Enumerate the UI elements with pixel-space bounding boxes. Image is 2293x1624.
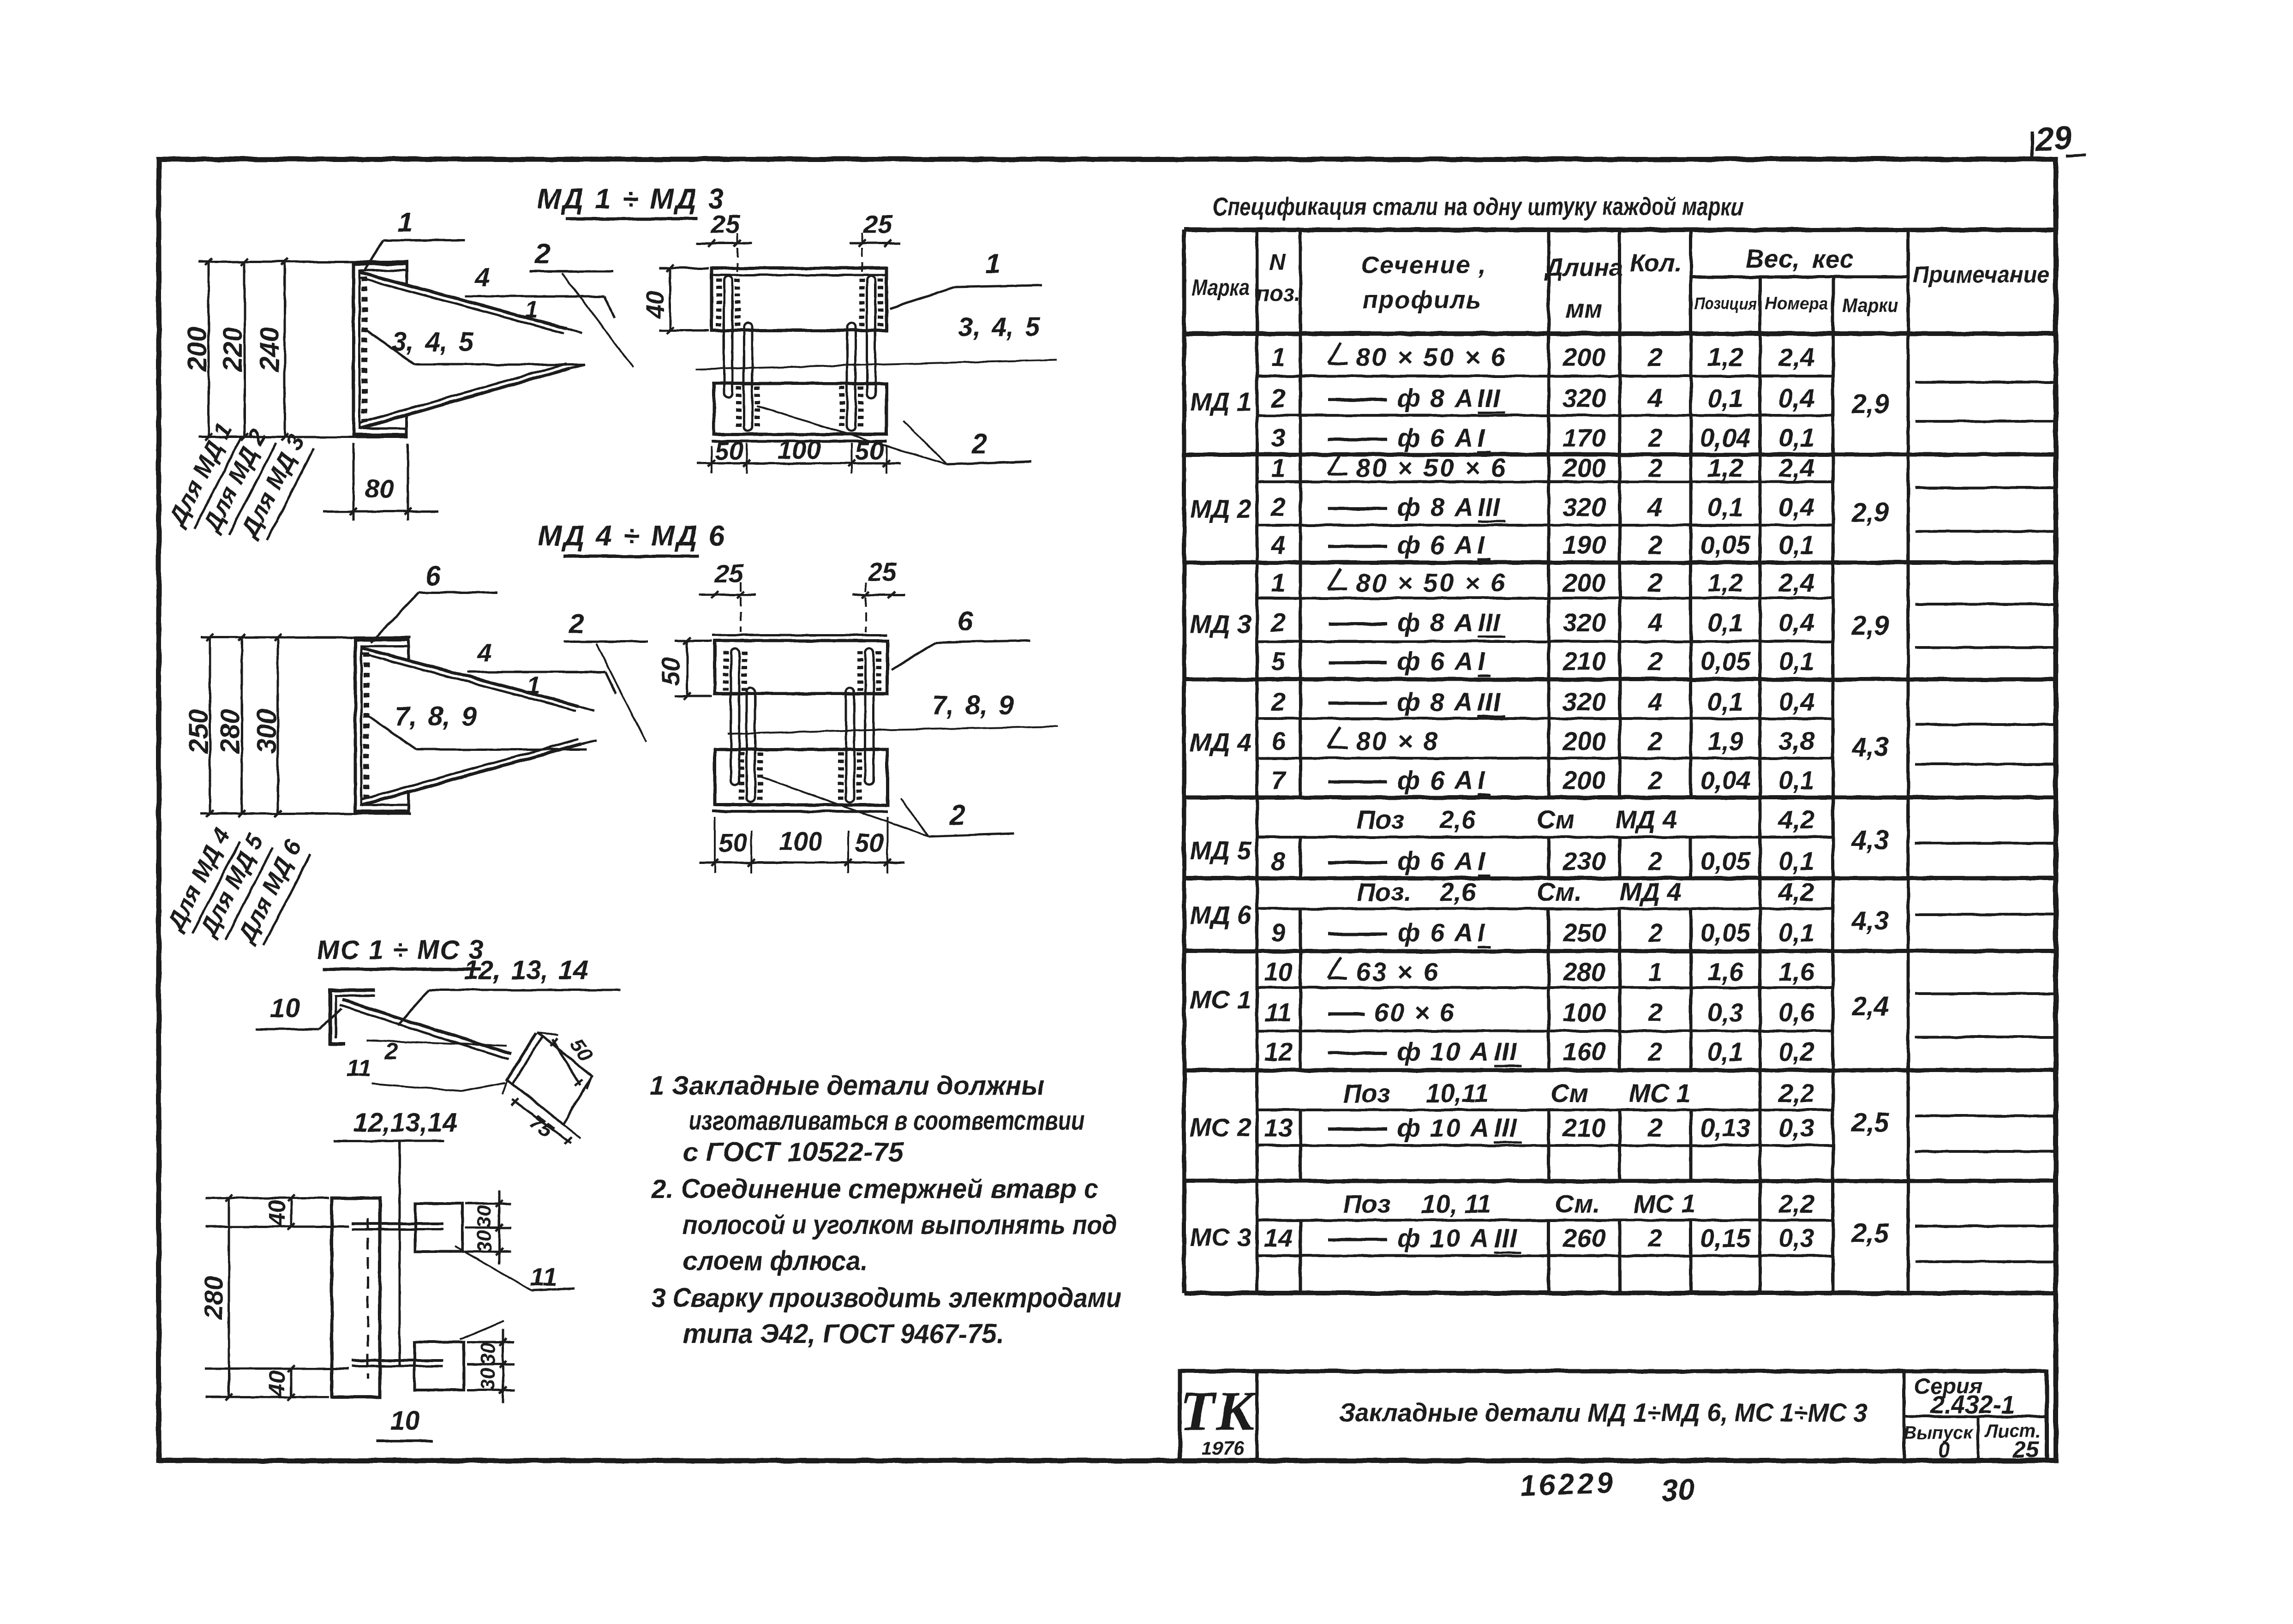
svg-text:100: 100 [779,827,822,856]
svg-text:7, 8, 9: 7, 8, 9 [932,690,1013,720]
svg-text:Спецификация стали на одну: Спецификация стали на одну штуку каждой … [1213,193,1743,221]
svg-text:4: 4 [1647,687,1662,716]
svg-text:Сечение ,: Сечение , [1361,251,1487,279]
svg-text:ф 10 А: ф 10 А [1397,1113,1490,1142]
svg-text:11: 11 [530,1262,557,1291]
svg-text:14: 14 [1264,1223,1293,1252]
svg-text:1: 1 [1648,957,1662,986]
svg-text:30: 30 [1660,1472,1695,1508]
svg-text:8: 8 [1271,846,1286,875]
svg-text:3, 4, 5: 3, 4, 5 [958,312,1040,342]
svg-text:ф 6 А: ф 6 А [1397,530,1474,559]
svg-text:170: 170 [1563,423,1605,452]
fig C bottom dims [697,462,901,465]
fig A weld [362,277,368,422]
fig E2 right dims bottom [467,1341,515,1343]
svg-text:ф 6 А: ф 6 А [1397,846,1474,875]
svg-text:I: I [1478,530,1485,559]
svg-text:1 Закладные детали должны: 1 Закладные детали должны [650,1071,1044,1101]
svg-text:320: 320 [1563,492,1605,521]
svg-text:30: 30 [473,1205,496,1228]
svg-text:1,2: 1,2 [1707,453,1743,482]
svg-text:0,05: 0,05 [1700,647,1751,676]
svg-text:4,3: 4,3 [1851,732,1889,762]
svg-text:0,3: 0,3 [1707,998,1743,1027]
svg-text:2: 2 [1647,726,1662,755]
fig D top plate [715,641,887,694]
svg-text:МД 1: МД 1 [1190,387,1251,416]
svg-text:МД 5: МД 5 [1190,836,1252,865]
fig B weld [364,653,370,798]
svg-text:МД 4: МД 4 [1615,805,1677,834]
svg-text:2,5: 2,5 [1851,1218,1889,1248]
svg-text:40: 40 [641,291,669,319]
svg-text:2: 2 [1270,492,1285,521]
svg-text:III: III [1494,1113,1517,1142]
svg-text:0,2: 0,2 [1778,1037,1814,1066]
svg-text:III: III [1478,608,1501,637]
svg-text:25: 25 [714,559,744,588]
table verticals [1182,230,1186,1293]
svg-text:0,4: 0,4 [1778,687,1814,716]
svg-text:210: 210 [1562,647,1605,676]
fig A rod top [360,272,567,329]
svg-text:ф 6 А: ф 6 А [1397,647,1474,676]
svg-text:МД 3: МД 3 [1190,610,1251,639]
svg-text:0,1: 0,1 [1778,647,1814,676]
svg-text:Марка: Марка [1191,275,1250,300]
svg-text:3: 3 [1271,423,1285,452]
svg-text:профиль: профиль [1362,286,1482,314]
svg-text:7, 8, 9: 7, 8, 9 [395,701,476,731]
svg-text:12: 12 [1264,1037,1293,1066]
svg-text:4: 4 [1647,384,1662,413]
svg-text:0,1: 0,1 [1778,846,1814,875]
fig C top plate [712,268,886,330]
svg-text:1,6: 1,6 [1707,957,1744,986]
svg-text:2: 2 [949,799,965,830]
svg-text:200: 200 [1562,568,1605,597]
svg-text:III: III [1478,492,1501,521]
svg-text:280: 280 [215,709,245,755]
svg-text:25: 25 [863,210,892,239]
svg-text:100: 100 [1563,998,1605,1027]
svg-text:2: 2 [1647,453,1662,482]
svg-text:0,1: 0,1 [1778,423,1814,452]
svg-text:2,2: 2,2 [1778,1079,1814,1108]
svg-text:250: 250 [1562,918,1605,947]
svg-text:2: 2 [1270,384,1285,413]
svg-text:0,04: 0,04 [1700,423,1751,452]
svg-text:МС 1: МС 1 [1629,1079,1691,1108]
fig D bars [731,648,739,785]
fig E2 main plate [332,1198,380,1397]
svg-text:0,4: 0,4 [1778,492,1814,521]
svg-text:4: 4 [1270,530,1285,559]
svg-text:10, 11: 10, 11 [1421,1189,1491,1218]
svg-text:13: 13 [1264,1113,1293,1142]
svg-text:Поз: Поз [1343,1079,1390,1108]
svg-text:Длина: Длина [1544,254,1623,282]
svg-text:2,5: 2,5 [1851,1108,1889,1138]
svg-text:0,1: 0,1 [1707,492,1743,521]
svg-text:0,05: 0,05 [1700,918,1751,947]
svg-text:N: N [1269,249,1286,275]
svg-text:III: III [1494,1037,1517,1066]
svg-text:4,2: 4,2 [1778,805,1814,834]
svg-text:11: 11 [1265,998,1292,1027]
svg-text:80: 80 [365,474,394,503]
svg-text:мм: мм [1566,295,1603,323]
svg-text:2: 2 [1647,1113,1662,1142]
svg-text:1: 1 [527,672,540,699]
svg-text:2: 2 [1647,766,1662,795]
svg-text:30: 30 [473,1230,496,1252]
svg-text:См.: См. [1537,877,1581,906]
svg-text:МС 1 ÷ МС 3: МС 1 ÷ МС 3 [317,935,484,965]
svg-text:I: I [1478,846,1485,875]
svg-text:2: 2 [1647,342,1662,372]
fig E2 bottom rod [352,1359,443,1362]
svg-text:ф 6 А: ф 6 А [1397,766,1474,795]
svg-text:1,2: 1,2 [1707,342,1743,372]
svg-text:0,1: 0,1 [1778,530,1814,559]
svg-text:0,13: 0,13 [1700,1113,1751,1142]
svg-text:2: 2 [1647,846,1662,875]
svg-text:МД 6: МД 6 [1190,900,1252,929]
svg-text:0,6: 0,6 [1778,998,1815,1027]
fig B rod bottom [362,744,581,805]
fig C bars [724,276,732,398]
svg-text:1,6: 1,6 [1778,957,1815,986]
svg-text:280: 280 [1562,957,1605,986]
svg-text:МС 2: МС 2 [1190,1113,1251,1142]
svg-text:III: III [1478,384,1501,413]
svg-text:6: 6 [958,605,973,636]
svg-text:200: 200 [1562,766,1605,795]
svg-text:10,11: 10,11 [1426,1079,1489,1108]
svg-text:МД 2: МД 2 [1190,494,1251,523]
fig E2 top anchor plate [415,1204,462,1252]
svg-text:2: 2 [534,238,550,269]
svg-text:1: 1 [985,248,1000,279]
svg-text:2,6: 2,6 [1439,805,1476,834]
fig E angle bracket [330,990,375,1044]
svg-text:I: I [1478,766,1485,795]
svg-text:1: 1 [525,296,539,323]
svg-text:0,4: 0,4 [1778,384,1814,413]
svg-text:200: 200 [1562,342,1605,372]
svg-text:2,4: 2,4 [1778,342,1814,372]
svg-text:9: 9 [1271,918,1285,947]
svg-text:2: 2 [971,428,987,459]
svg-text:210: 210 [1562,1113,1605,1142]
svg-text:6: 6 [1271,726,1286,755]
svg-text:25: 25 [2012,1437,2039,1462]
svg-text:ф 6 А: ф 6 А [1397,423,1474,452]
svg-text:25: 25 [711,210,740,239]
svg-text:ф 8 А: ф 8 А [1397,384,1474,413]
svg-text:I: I [1478,647,1485,676]
svg-text:0,05: 0,05 [1700,846,1751,875]
svg-text:1976: 1976 [1201,1437,1245,1459]
svg-text:30: 30 [477,1342,499,1365]
svg-text:63 × 6: 63 × 6 [1356,957,1439,986]
svg-text:0,3: 0,3 [1778,1223,1814,1252]
svg-text:2: 2 [1647,998,1662,1027]
fig A rod bottom [360,368,569,428]
svg-text:10: 10 [1264,957,1293,986]
svg-text:МД 4: МД 4 [1620,877,1682,906]
svg-text:Поз: Поз [1343,1189,1390,1218]
svg-text:1,2: 1,2 [1707,568,1743,597]
svg-text:Кол.: Кол. [1630,249,1682,277]
svg-text:1: 1 [1271,342,1285,372]
fig A dims [198,261,408,263]
svg-text:0,04: 0,04 [1700,766,1751,795]
svg-text:МД 4 ÷ МД 6: МД 4 ÷ МД 6 [538,520,727,552]
svg-text:300: 300 [252,709,282,754]
table grid [1184,228,2056,232]
svg-text:2,9: 2,9 [1851,611,1889,641]
svg-text:Номера: Номера [1765,294,1828,313]
svg-text:2: 2 [1647,918,1662,947]
svg-text:2: 2 [1647,647,1662,676]
svg-text:См.: См. [1555,1189,1600,1218]
svg-text:I: I [1478,918,1485,947]
svg-text:60 × 6: 60 × 6 [1374,998,1455,1027]
svg-text:80 × 50 × 6: 80 × 50 × 6 [1356,342,1507,372]
fig C dim 40 [659,267,709,270]
fig E2 right dims top [465,1203,511,1205]
svg-text:240: 240 [255,327,285,372]
svg-text:320: 320 [1563,687,1605,716]
svg-text:0,1: 0,1 [1707,687,1743,716]
svg-text:80 × 50 × 6: 80 × 50 × 6 [1356,453,1507,482]
svg-text:7: 7 [1271,766,1287,795]
svg-text:4,3: 4,3 [1851,906,1889,936]
svg-text:2,6: 2,6 [1439,877,1476,906]
svg-text:220: 220 [218,327,248,372]
svg-text:2. Соединение стержней втав: 2. Соединение стержней втавр с [651,1174,1098,1204]
svg-text:ф 10 А: ф 10 А [1397,1223,1490,1252]
fig E2 left dims [205,1197,329,1199]
svg-text:полосой и уголком выполнять: полосой и уголком выполнять под [683,1210,1117,1240]
svg-text:0,3: 0,3 [1778,1113,1814,1142]
svg-text:0,05: 0,05 [1700,530,1751,559]
svg-text:поз.: поз. [1256,282,1300,306]
svg-text:30: 30 [477,1367,499,1390]
svg-text:100: 100 [778,435,820,464]
svg-text:2,9: 2,9 [1851,389,1889,419]
svg-text:280: 280 [199,1276,228,1319]
svg-text:260: 260 [1562,1223,1605,1252]
svg-text:III: III [1494,1223,1517,1252]
svg-text:2: 2 [1647,1037,1662,1066]
svg-text:50: 50 [718,828,747,857]
svg-text:5: 5 [1271,647,1286,676]
fig A dim 80 [353,443,355,521]
svg-text:0,1: 0,1 [1707,1037,1743,1066]
svg-text:80 × 8: 80 × 8 [1356,726,1439,755]
svg-text:изготавливаться в соответств: изготавливаться в соответствии [688,1106,1084,1136]
svg-text:6: 6 [425,560,441,591]
svg-text:320: 320 [1563,384,1605,413]
svg-text:Марки: Марки [1842,294,1898,316]
svg-text:2.432-1: 2.432-1 [1930,1391,2015,1419]
svg-text:40: 40 [264,1200,290,1226]
svg-text:типа Э42, ГОСТ 9467-75.: типа Э42, ГОСТ 9467-75. [683,1319,1004,1349]
svg-text:2: 2 [384,1038,398,1065]
svg-text:4: 4 [475,263,490,292]
svg-text:МД 4: МД 4 [1190,728,1251,757]
svg-text:11: 11 [347,1055,371,1082]
svg-text:2: 2 [1647,423,1662,452]
fig E plate dims [537,1032,558,1036]
svg-text:0,4: 0,4 [1778,608,1814,637]
svg-text:ф 8 А: ф 8 А [1397,492,1474,521]
fig B rod top [362,648,579,706]
svg-text:4: 4 [477,638,491,667]
svg-text:12, 13, 14: 12, 13, 14 [464,955,588,985]
svg-text:1: 1 [1271,453,1285,482]
svg-text:МС 1: МС 1 [1190,985,1251,1014]
svg-text:ф 8 А: ф 8 А [1397,687,1474,716]
svg-text:0,1: 0,1 [1778,766,1814,795]
svg-text:40: 40 [264,1371,290,1397]
svg-text:0,1: 0,1 [1707,384,1743,413]
svg-text:3,8: 3,8 [1778,726,1815,755]
svg-text:Примечание: Примечание [1913,262,2049,288]
svg-text:Поз: Поз [1357,805,1404,834]
svg-text:12,13,14: 12,13,14 [353,1108,457,1138]
svg-text:50: 50 [855,828,884,857]
svg-text:Закладные детали МД 1÷МД 6: Закладные детали МД 1÷МД 6, МС 1÷МС 3 [1339,1398,1868,1427]
svg-text:4: 4 [1647,608,1662,637]
fig D dim 50 [675,640,712,642]
svg-text:200: 200 [182,327,212,372]
svg-text:ф 8 А: ф 8 А [1397,608,1474,637]
svg-text:0: 0 [1938,1438,1950,1462]
svg-text:80 × 50 × 6: 80 × 50 × 6 [1356,568,1507,597]
svg-text:1,9: 1,9 [1707,726,1743,755]
svg-text:ф 10 А: ф 10 А [1397,1037,1490,1066]
svg-text:3 Сварку производить электр: 3 Сварку производить электродами [652,1283,1121,1313]
svg-text:16229: 16229 [1519,1466,1616,1502]
svg-text:См: См [1551,1079,1588,1108]
svg-text:2,4: 2,4 [1778,568,1814,597]
svg-text:МС 3: МС 3 [1190,1222,1251,1252]
svg-text:МС 1: МС 1 [1634,1189,1695,1218]
svg-text:МД 1 ÷ МД 3: МД 1 ÷ МД 3 [537,183,726,215]
svg-text:III: III [1478,687,1501,716]
svg-text:I: I [1478,423,1485,452]
fig E rod diag [342,1000,511,1054]
svg-text:2,4: 2,4 [1778,453,1814,482]
svg-text:160: 160 [1563,1037,1605,1066]
svg-text:200: 200 [1562,726,1605,755]
svg-text:2: 2 [1647,530,1662,559]
svg-text:0,15: 0,15 [1700,1223,1751,1252]
svg-text:1: 1 [397,207,413,238]
fig C bottom plate [714,384,886,434]
svg-text:Поз.: Поз. [1357,877,1412,906]
fig D bottom dims [699,862,904,864]
svg-text:См: См [1537,805,1575,834]
svg-text:2: 2 [1647,568,1662,597]
svg-text:230: 230 [1562,846,1605,875]
svg-text:4: 4 [1647,492,1662,521]
svg-text:2: 2 [1270,687,1285,716]
fig E2 bottom anchor plate [414,1342,464,1390]
svg-text:200: 200 [1562,453,1605,482]
svg-text:4,2: 4,2 [1778,877,1814,906]
fig A channel [353,264,408,435]
fig B channel [355,640,410,811]
svg-text:50: 50 [657,658,685,685]
title block [1180,1371,2047,1460]
svg-text:ТК: ТК [1180,1380,1257,1442]
fig B dims [201,636,411,639]
svg-text:25: 25 [868,557,897,586]
svg-text:29: 29 [2033,119,2073,159]
svg-text:10: 10 [270,993,300,1023]
svg-text:190: 190 [1563,530,1605,559]
svg-text:250: 250 [184,709,214,755]
svg-text:0,1: 0,1 [1778,918,1814,947]
svg-text:4,3: 4,3 [1851,825,1889,855]
svg-text:2,4: 2,4 [1851,991,1889,1021]
svg-text:10: 10 [390,1406,420,1436]
svg-text:2: 2 [1270,608,1285,637]
svg-text:320: 320 [1563,608,1605,637]
svg-text:2: 2 [569,608,584,639]
svg-text:ф 6 А: ф 6 А [1397,918,1474,947]
svg-text:с ГОСТ 10522-75: с ГОСТ 10522-75 [683,1137,904,1167]
fig E2 top rod [352,1222,443,1225]
svg-text:3, 4, 5: 3, 4, 5 [392,327,474,357]
svg-text:Позиция: Позиция [1694,294,1757,313]
fig E plate persp [508,1032,592,1124]
svg-text:50: 50 [715,436,743,465]
svg-text:2,9: 2,9 [1851,497,1889,527]
border frame [159,159,2056,1461]
svg-text:Вес, кес: Вес, кес [1745,244,1854,273]
svg-text:2: 2 [1647,1223,1662,1252]
fig D bottom plate [715,749,887,805]
svg-text:1: 1 [1271,568,1285,597]
svg-text:0,1: 0,1 [1707,608,1743,637]
svg-text:2,2: 2,2 [1778,1189,1814,1218]
svg-text:слоем флюса.: слоем флюса. [683,1246,868,1276]
fig E crossbar 11 [507,1033,536,1081]
